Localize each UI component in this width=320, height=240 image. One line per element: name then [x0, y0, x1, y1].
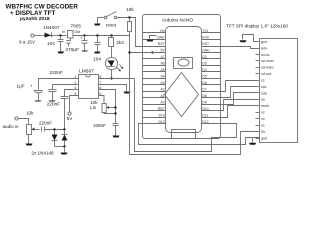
svg-text:led+: led+	[261, 46, 268, 50]
capacitor C5 1uF	[17, 83, 43, 100]
svg-text:220nF: 220nF	[39, 121, 52, 126]
svg-text:cs: cs	[261, 79, 265, 83]
pin A5 left	[143, 68, 166, 72]
pin sd-miso TFT	[256, 66, 274, 70]
capacitor C9 220nF series	[39, 121, 65, 132]
svg-text:A5: A5	[160, 68, 164, 72]
node diode left	[53, 128, 55, 130]
svg-text:470µF: 470µF	[65, 47, 79, 53]
node LED junction	[110, 77, 112, 79]
svg-text:2k2: 2k2	[116, 40, 124, 45]
svg-text:reset: reset	[106, 22, 117, 27]
svg-text:A4: A4	[160, 75, 164, 79]
pin D11 right	[202, 113, 221, 117]
node 10k top	[128, 16, 130, 18]
pin 3	[74, 86, 78, 90]
svg-text:220nF: 220nF	[50, 70, 63, 75]
wire RST to led+	[221, 47, 256, 49]
wire pin1	[39, 79, 75, 90]
ground	[61, 153, 68, 155]
wire	[64, 147, 66, 153]
svg-text:gnd: gnd	[261, 40, 267, 44]
svg-text:sd-miso: sd-miso	[261, 66, 274, 70]
ground	[35, 101, 42, 102]
pin led+ TFT	[256, 46, 268, 50]
chip diamond	[165, 73, 199, 117]
svg-text:7805: 7805	[71, 23, 82, 28]
svg-text:D12: D12	[202, 120, 208, 124]
node input junction	[59, 34, 61, 36]
pin sda TFT	[256, 91, 267, 95]
pin nc TFT	[256, 123, 265, 127]
pin Vin left	[143, 29, 166, 33]
svg-text:gnd: gnd	[261, 136, 267, 140]
svg-text:A1: A1	[160, 94, 164, 98]
node pot bottom	[114, 112, 116, 114]
wire	[35, 35, 45, 37]
svg-text:Vin: Vin	[160, 29, 165, 33]
wire pin4 5V supply	[67, 96, 79, 121]
svg-text:nc: nc	[261, 111, 265, 115]
svg-text:1: 1	[74, 75, 76, 79]
svg-text:D8: D8	[202, 94, 206, 98]
svg-text:sd-mosi: sd-mosi	[261, 59, 274, 63]
wire pin7 to ground	[99, 85, 127, 92]
pin RST right	[202, 42, 221, 46]
ground	[58, 52, 65, 54]
svg-text:1µF: 1µF	[17, 83, 25, 88]
wire pin6	[99, 90, 116, 124]
svg-text:In: In	[62, 30, 65, 34]
wire D9 to sda	[221, 93, 256, 105]
ground	[124, 92, 131, 94]
wire diode join	[55, 146, 65, 148]
svg-text:TX1: TX1	[202, 29, 208, 33]
wire 5V to arduino	[130, 36, 166, 155]
capacitor C8 100nF	[93, 123, 119, 136]
pin nc TFT	[256, 117, 265, 121]
svg-text:py2ohh 2018: py2ohh 2018	[20, 16, 50, 22]
LED D2	[105, 57, 123, 78]
ground	[82, 51, 89, 52]
wire RST net	[117, 18, 143, 47]
pin sd-mosi TFT	[256, 59, 274, 63]
svg-text:A7: A7	[160, 55, 164, 59]
pin A7 left	[143, 55, 166, 59]
ground TFT top	[240, 35, 256, 43]
pin 8	[99, 75, 103, 79]
pin D9 right	[202, 100, 221, 104]
pin sd-sck TFT	[256, 72, 272, 76]
wire D7 to cs	[221, 81, 256, 92]
wire D11 to reset	[221, 106, 256, 118]
pin 3V3 left	[143, 113, 166, 117]
svg-text:RX0: RX0	[202, 36, 209, 40]
resistor R1 2k2	[109, 36, 125, 58]
pin A2 left	[143, 87, 166, 91]
pin D5 right	[202, 75, 221, 79]
pin 4	[74, 92, 78, 96]
wire pin8 output	[99, 78, 135, 80]
resistor R2 10k	[126, 7, 134, 36]
pin gnd TFT	[256, 40, 268, 44]
pin TX1 right	[202, 29, 221, 33]
pin D3 right	[202, 62, 221, 66]
svg-text:nc: nc	[261, 117, 265, 121]
pin 5V left	[143, 49, 166, 53]
wire	[52, 35, 67, 37]
svg-text:9 a 15V: 9 a 15V	[19, 39, 36, 44]
wire pin5 to pot	[99, 96, 105, 104]
svg-text:audio in: audio in	[3, 124, 20, 129]
svg-text:D3: D3	[202, 62, 206, 66]
node out2	[96, 34, 98, 36]
svg-text:REF: REF	[158, 107, 165, 111]
svg-text:5V: 5V	[67, 116, 73, 121]
svg-text:reset: reset	[261, 104, 269, 108]
switch SW1 reset	[104, 12, 117, 28]
USB connector	[172, 130, 196, 139]
diode D1 1N4007	[43, 25, 60, 38]
wire pin2	[53, 85, 75, 90]
pin 6	[99, 86, 103, 90]
pin gnd TFT	[256, 136, 268, 140]
arduino chip body	[166, 27, 202, 133]
pin sck TFT	[256, 85, 267, 89]
pin RX0 right	[202, 36, 221, 40]
pin 1	[74, 75, 78, 79]
svg-text:100nF: 100nF	[93, 123, 106, 128]
svg-text:5V: 5V	[160, 49, 165, 53]
pin D6 right	[202, 81, 221, 85]
svg-text:D7: D7	[202, 87, 206, 91]
ground reset switch	[95, 18, 101, 26]
wire 5V out rail	[74, 35, 130, 37]
svg-text:104: 104	[93, 56, 101, 61]
pin D13 left	[143, 120, 166, 124]
pin reset TFT	[256, 104, 270, 108]
crystal	[174, 58, 193, 69]
regulator U2 7805	[62, 23, 81, 40]
pin GND left	[143, 36, 166, 40]
capacitor C1 104 input	[47, 36, 64, 52]
potentiometer R3 10k Lin	[90, 100, 115, 113]
svg-text:A0: A0	[160, 100, 164, 104]
pin A6 left	[143, 62, 166, 66]
pin cs TFT	[256, 79, 265, 83]
ground arduino GND pin	[147, 36, 157, 42]
wire D10 to ao	[221, 100, 256, 111]
svg-text:10k: 10k	[126, 7, 134, 12]
wire D8 to sck	[221, 87, 256, 98]
svg-text:2x 1N4148: 2x 1N4148	[31, 150, 54, 155]
svg-text:ao: ao	[261, 98, 265, 102]
svg-text:sck: sck	[261, 85, 267, 89]
pin A0 left	[143, 100, 166, 104]
pin D4 right	[202, 68, 221, 72]
node 5V drop	[128, 51, 130, 53]
pin D12 right	[202, 120, 221, 124]
diode D3 1N4148 down	[52, 130, 58, 147]
svg-text:GND: GND	[157, 36, 165, 40]
svg-text:A6: A6	[160, 62, 164, 66]
input terminal 9a15V	[19, 34, 36, 44]
pin D8 right	[202, 94, 221, 98]
wire	[98, 17, 104, 19]
svg-text:Lin: Lin	[90, 105, 97, 110]
capacitor C2 470uF	[65, 41, 79, 54]
pin 5	[99, 92, 103, 96]
svg-text:D11: D11	[202, 113, 208, 117]
svg-text:Arduino NANO: Arduino NANO	[162, 18, 193, 23]
svg-text:5V: 5V	[261, 130, 266, 134]
pin A1 left	[143, 94, 166, 98]
svg-text:TFT SPI display 1.8” 128x160: TFT SPI display 1.8” 128x160	[226, 24, 288, 29]
pin GND right	[202, 49, 221, 53]
ground	[26, 144, 33, 146]
pin A3 left	[143, 81, 166, 85]
capacitor C6 220nF	[49, 70, 63, 100]
pin sd-sc TFT	[256, 53, 270, 57]
node 5V pin	[151, 51, 153, 53]
node out1	[83, 34, 85, 36]
svg-text:D10: D10	[202, 107, 208, 111]
svg-text:sd-sc: sd-sc	[261, 53, 270, 57]
capacitor C7 220nF input	[47, 97, 69, 130]
node diode right	[63, 128, 65, 130]
svg-text:104: 104	[47, 41, 55, 46]
svg-text:D5: D5	[202, 75, 206, 79]
svg-text:3V3: 3V3	[159, 113, 165, 117]
node	[63, 145, 65, 147]
svg-text:D4: D4	[202, 68, 206, 72]
wire	[19, 119, 29, 125]
pin ao TFT	[256, 98, 266, 102]
capacitor C3 electrolytic output	[80, 36, 88, 51]
svg-text:+: +	[80, 36, 83, 41]
node wiper	[114, 106, 116, 108]
ground	[113, 136, 120, 138]
pin 7	[99, 81, 103, 85]
wire LM567 out to D12	[135, 79, 237, 152]
svg-text:+: +	[30, 84, 33, 89]
pin A4 left	[143, 75, 166, 79]
pin 2	[74, 81, 78, 85]
op-amp U1 LM567	[79, 69, 99, 99]
capacitor C4 104 output	[93, 36, 101, 62]
wire D13 to TFT gnd	[139, 124, 260, 145]
potentiometer R4 10k audio	[26, 111, 40, 144]
pin D2 right	[202, 55, 221, 59]
pin REF left	[143, 107, 166, 111]
svg-text:LM567: LM567	[79, 69, 94, 75]
svg-text:GND: GND	[202, 49, 210, 53]
svg-text:D2: D2	[202, 55, 206, 59]
svg-text:RST: RST	[202, 42, 209, 46]
svg-text:D13: D13	[158, 120, 164, 124]
pin D10 right	[202, 107, 221, 111]
wire 5V under box to TFT	[130, 132, 260, 155]
ground TFT bottom	[249, 138, 256, 145]
pin D7 right	[202, 87, 221, 91]
title text	[6, 4, 79, 22]
ground	[49, 101, 56, 102]
svg-text:3: 3	[74, 86, 76, 90]
svg-text:sd-sck: sd-sck	[261, 72, 272, 76]
pin RST left	[143, 42, 166, 46]
pin 5V TFT	[256, 130, 266, 134]
svg-text:A2: A2	[160, 87, 164, 91]
wire pin3	[65, 90, 75, 97]
diode D4 1N4148 up	[62, 130, 68, 147]
svg-text:A3: A3	[160, 81, 164, 85]
svg-text:D9: D9	[202, 100, 206, 104]
ground	[95, 52, 101, 54]
pin nc TFT	[256, 111, 265, 115]
svg-text:sda: sda	[261, 91, 267, 95]
svg-text:nc: nc	[261, 123, 265, 127]
node out3	[110, 34, 112, 36]
audio input terminal	[3, 117, 20, 129]
svg-text:1N4007: 1N4007	[43, 25, 60, 30]
svg-text:10k: 10k	[26, 111, 34, 116]
arduino U3 box	[143, 15, 221, 139]
svg-text:Out: Out	[74, 30, 80, 34]
svg-text:+ DISPLAY TFT: + DISPLAY TFT	[10, 10, 55, 17]
svg-text:D6: D6	[202, 81, 206, 85]
TFT display box	[226, 24, 298, 143]
svg-text:2: 2	[74, 81, 76, 85]
svg-text:220nF: 220nF	[47, 102, 60, 107]
svg-text:RST: RST	[158, 42, 165, 46]
